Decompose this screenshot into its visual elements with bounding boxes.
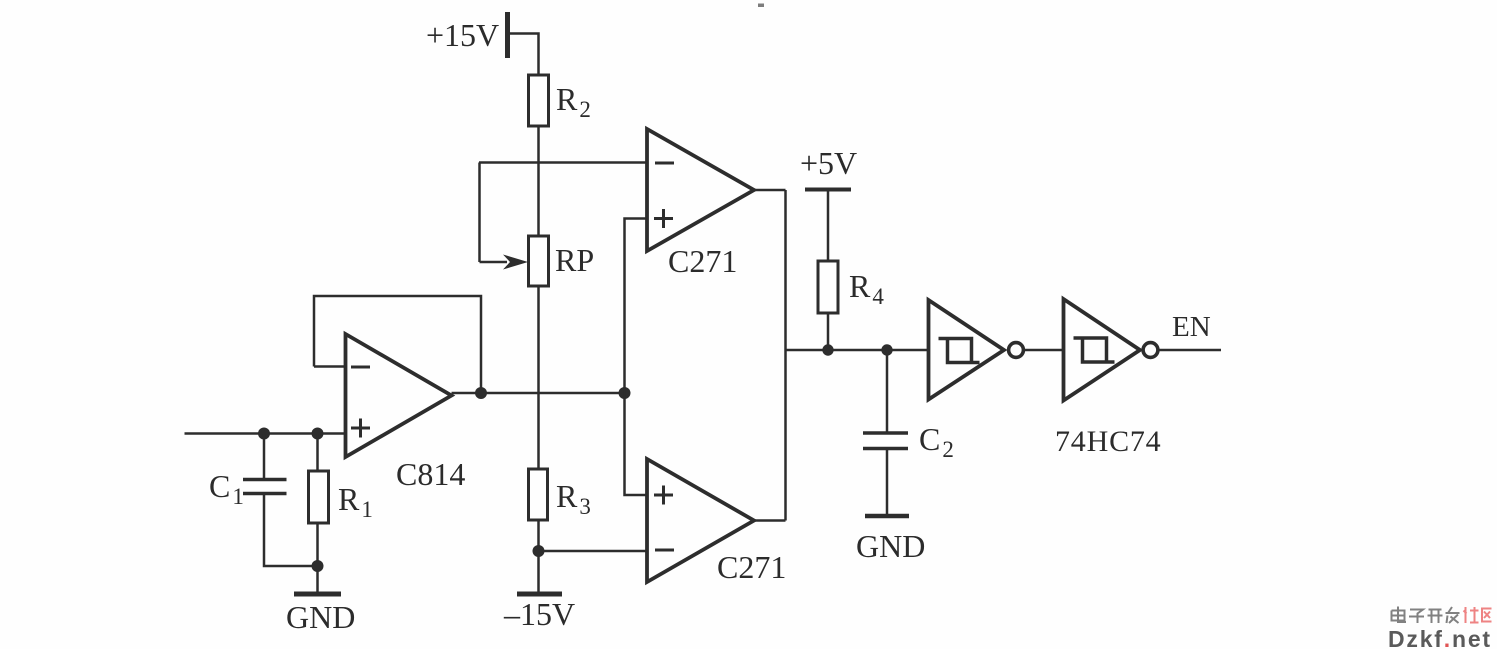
char zi [1409, 610, 1424, 624]
wire +15V to R2 [509, 34, 539, 76]
capacitor C2 [863, 433, 908, 449]
op-amp C814 [346, 334, 452, 457]
C814 plus sign [351, 419, 370, 438]
wire +5V to R4 [827, 190, 830, 262]
resistor R1 [309, 471, 329, 523]
char qu [1482, 609, 1492, 622]
power rail +15V terminal bar [505, 12, 510, 58]
wire C2 to GND [886, 450, 889, 514]
wire inverting-input rail to upper C271 [479, 161, 647, 164]
svg-text:74HC74: 74HC74 [1055, 425, 1161, 458]
svg-text:+15V: +15V [426, 17, 499, 53]
wire to lower C271 inverting input [539, 550, 648, 553]
svg-text:R1: R1 [338, 481, 373, 522]
junction node output / comparator input bus [619, 387, 631, 399]
wire inverter1 to inverter2 [1024, 349, 1064, 352]
wire R1 top [316, 434, 319, 472]
resistor R3 [529, 469, 548, 520]
svg-text:Dzkf.net: Dzkf.net [1388, 626, 1492, 649]
wire lower C271 output to bus [754, 519, 786, 522]
svg-text:–15V: –15V [503, 596, 575, 632]
wire R2 to RP [537, 126, 540, 236]
wire C1 to ground bus [264, 495, 318, 566]
lower C271 plus sign [654, 486, 673, 505]
capacitor C1 [243, 480, 287, 494]
junction node feedback / output [475, 387, 487, 399]
scan speck top edge [758, 4, 764, 8]
junction node R3 / lower C271 inverting input [533, 545, 545, 557]
char dian [1392, 607, 1407, 623]
op-amp C271 upper [647, 129, 754, 251]
svg-text:GND: GND [286, 599, 355, 635]
svg-text:C271: C271 [717, 549, 786, 585]
output bus vertical [784, 190, 787, 521]
upper C271 minus sign [655, 162, 674, 165]
hysteresis symbol 2 [1074, 338, 1115, 362]
wiper arrowhead [503, 255, 528, 270]
svg-text:+5V: +5V [800, 145, 857, 181]
wire C814 inverting input [314, 365, 346, 368]
junction node input / R1 [312, 428, 324, 440]
op-amp C271 lower [647, 459, 754, 582]
wire RP to R3 [537, 286, 540, 469]
svg-text:C271: C271 [668, 243, 737, 279]
svg-text:GND: GND [856, 528, 925, 564]
output wire C814 [452, 392, 625, 395]
ground bar GND right [865, 514, 909, 519]
feedback wire C814 [314, 296, 481, 393]
resistor R4 [818, 261, 838, 313]
wire comparator non-inverting input bus [625, 219, 648, 496]
input wire [185, 432, 346, 435]
power +5V terminal bar [805, 188, 851, 192]
junction node R4 / output [822, 344, 833, 355]
svg-text:C1: C1 [209, 468, 244, 509]
wire input to C1 [263, 434, 266, 479]
inverter 1 output bubble [1009, 343, 1024, 358]
char fa [1446, 607, 1460, 623]
char she [1464, 607, 1479, 623]
potentiometer RP [529, 236, 549, 286]
output wire EN [1159, 349, 1222, 352]
svg-text:R3: R3 [556, 478, 591, 519]
power -15V terminal bar [517, 592, 562, 597]
svg-text:RP: RP [555, 242, 594, 278]
ground bar GND left [294, 592, 341, 597]
wiper arrow wire [480, 261, 508, 264]
svg-text:R2: R2 [556, 81, 591, 122]
hysteresis symbol 1 [939, 339, 980, 363]
schmitt inverter 1 [929, 300, 1005, 400]
resistor R2 [529, 75, 549, 126]
junction node input / C1 [258, 428, 270, 440]
watermark 社区 (red) [1464, 607, 1492, 623]
svg-text:R4: R4 [849, 268, 884, 309]
main output wire to inverter [786, 349, 929, 352]
svg-text:C814: C814 [396, 456, 465, 492]
wire wiper drop [478, 163, 481, 263]
wire output to C2 [886, 350, 889, 432]
junction node C2 / output [881, 344, 892, 355]
inverter 2 output bubble [1143, 343, 1158, 358]
wire R4 to output line [827, 313, 830, 350]
schmitt inverter 2 [1064, 299, 1141, 401]
upper C271 plus sign [654, 209, 673, 228]
wire R1 bottom to GND [316, 523, 319, 592]
svg-text:C2: C2 [919, 421, 954, 462]
lower C271 minus sign [655, 549, 674, 552]
svg-text:EN: EN [1172, 311, 1211, 343]
junction node R1 / C1 / GND [312, 560, 324, 572]
C814 minus sign [351, 366, 370, 369]
wire upper C271 output to bus [754, 189, 786, 192]
wire R3 to -15V bar [537, 520, 540, 592]
char kai [1428, 610, 1443, 624]
watermark line 1: Chinese characters 电子开发 (gray) [1392, 607, 1460, 624]
